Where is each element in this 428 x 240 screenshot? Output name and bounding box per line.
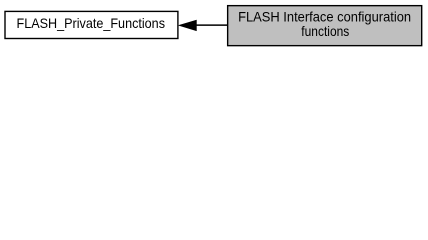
svg-text:functions: functions bbox=[301, 23, 349, 39]
wire from FLASH Interface configuration functions to arrowhead bbox=[195, 24, 228, 26]
svg-text:FLASH_Private_Functions: FLASH_Private_Functions bbox=[17, 15, 166, 31]
arrowhead pointing at FLASH_Private_Functions bbox=[180, 20, 197, 30]
node FLASH_Private_Functions box bbox=[5, 11, 178, 38]
background bbox=[0, 0, 428, 52]
node FLASH Interface configuration functions box (current, grey) bbox=[228, 6, 422, 46]
